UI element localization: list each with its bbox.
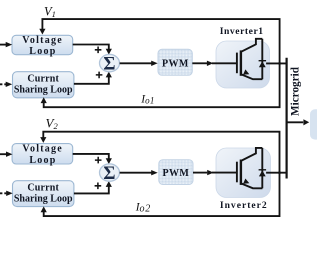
plus sign bottom 1 xyxy=(96,72,103,79)
summer S1 xyxy=(100,54,120,71)
svg-text:Voltage: Voltage xyxy=(22,35,63,46)
wire gate lead 2 xyxy=(212,172,236,174)
svg-text:Microgrid: Microgrid xyxy=(289,66,301,116)
wire Io2 feedback from junction to Current Sharing Loop 2 xyxy=(44,173,280,216)
svg-text:Sharing Loop: Sharing Loop xyxy=(14,193,73,204)
block Current Sharing Loop 2 xyxy=(13,181,74,207)
svg-text:Voltage: Voltage xyxy=(22,144,63,155)
svg-text:Σ: Σ xyxy=(103,55,115,75)
svg-text:Inverter1: Inverter1 xyxy=(220,26,264,37)
junction node 1 xyxy=(278,62,281,65)
svg-text:Io1: Io1 xyxy=(140,93,154,105)
plus sign top 1 xyxy=(95,47,102,54)
block PWM 1 xyxy=(158,49,192,75)
wire input reference 2 xyxy=(0,153,6,155)
wire Current Sharing Loop 1 to summer xyxy=(74,77,109,84)
wire summer 2 to PWM 2 xyxy=(120,172,152,174)
svg-text:Σ: Σ xyxy=(103,164,115,184)
transistor Q2 with antiparallel diode xyxy=(237,148,266,188)
wire V2 feedback from junction to Voltage Loop 2 xyxy=(43,132,279,173)
wire V1 feedback from junction to Voltage Loop 1 xyxy=(42,19,279,63)
block Current Sharing Loop 1 xyxy=(13,72,74,98)
wire dashed input 1 xyxy=(0,83,6,85)
wire PWM 2 to inverter 2 xyxy=(193,172,207,174)
block Inverter2 body xyxy=(216,148,271,198)
svg-text:Io2: Io2 xyxy=(135,201,151,214)
wire inverter 2 output to bus xyxy=(266,172,287,174)
block Voltage Loop 2 xyxy=(12,144,73,164)
svg-text:Sharing Loop: Sharing Loop xyxy=(14,84,73,95)
block Voltage Loop 1 xyxy=(12,35,73,54)
block Inverter1 body xyxy=(216,41,270,88)
wire gate lead 1 xyxy=(212,62,236,64)
block PWM 2 xyxy=(159,160,193,185)
svg-text:Loop: Loop xyxy=(29,46,56,57)
summer S2 xyxy=(100,164,120,181)
wire Current Sharing Loop 2 to summer xyxy=(74,186,109,193)
wire Io1 feedback from junction to Current Sharing Loop 1 xyxy=(44,63,280,107)
bus Microgrid xyxy=(286,58,288,179)
wire summer 1 to PWM 1 xyxy=(120,62,152,64)
plus sign top 2 xyxy=(95,157,102,164)
wire bus to load xyxy=(287,121,304,123)
svg-text:PWM: PWM xyxy=(162,58,189,69)
plus sign bottom 2 xyxy=(95,183,102,190)
wire Voltage Loop 2 to summer xyxy=(73,154,109,159)
wire inverter 1 output to bus xyxy=(266,62,287,64)
svg-text:PWM: PWM xyxy=(163,168,190,179)
wire Voltage Loop 1 to summer xyxy=(73,45,109,50)
svg-text:Currnt: Currnt xyxy=(27,74,59,85)
svg-text:Loop: Loop xyxy=(29,155,56,166)
wire dashed input 2 xyxy=(0,192,6,194)
junction node 2 xyxy=(278,171,281,174)
svg-text:Inverter2: Inverter2 xyxy=(220,200,268,211)
wire PWM 1 to inverter 1 xyxy=(192,62,207,64)
transistor Q1 with antiparallel diode xyxy=(237,39,266,79)
svg-text:Currnt: Currnt xyxy=(27,183,59,194)
block load xyxy=(310,109,320,139)
wire input reference 1 xyxy=(0,44,6,46)
